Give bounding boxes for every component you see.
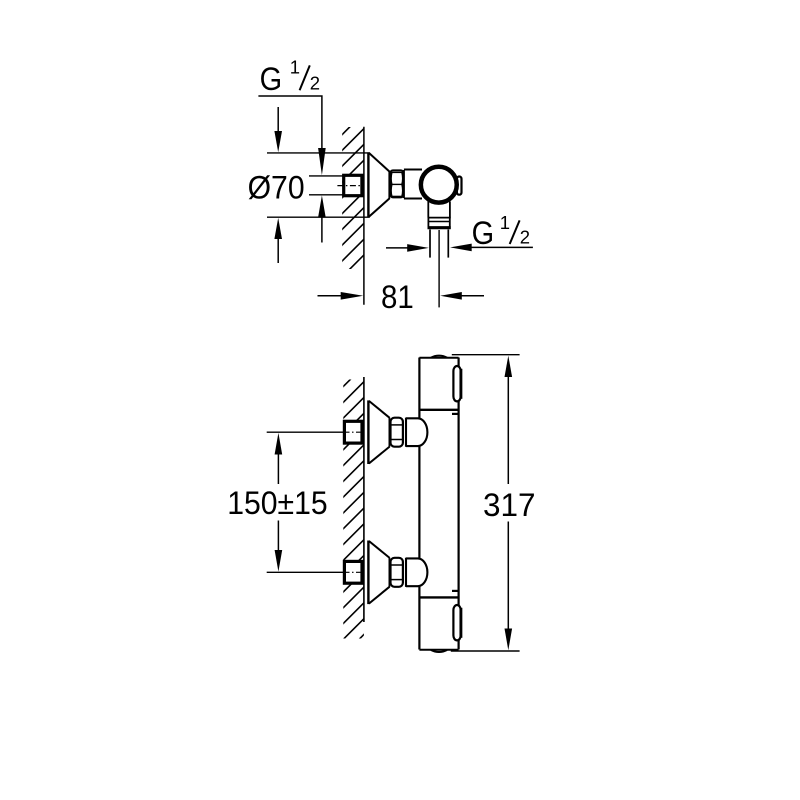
150 dimension extension line (bottom union centerline) (267, 571, 345, 573)
wall hatching (side view) (206, 125, 494, 271)
bottom handle knob (front view) (453, 605, 460, 640)
top cap detail mark (452, 413, 458, 415)
svg-text:150±15: 150±15 (227, 485, 328, 521)
top hex nut (front view) (391, 418, 403, 447)
svg-text:81: 81 (381, 279, 414, 315)
supply pipe extension lines (side view) (309, 176, 343, 195)
hex nut (side view) (390, 170, 403, 197)
317 extension lines (451, 355, 520, 651)
dimension label G 1/2 (outlet, right) (472, 212, 530, 251)
fraction slash (right label) (510, 220, 520, 244)
valve body bar (front view) (419, 358, 458, 650)
bottom cap separation line (419, 596, 458, 598)
svg-text:G: G (260, 61, 283, 97)
concealed union fitting in wall (side view, bold) (344, 175, 362, 195)
top cap separation line (419, 409, 458, 411)
top union centerline (dash-dot) (344, 431, 362, 433)
valve body bottom cap arc (419, 649, 458, 651)
150 dimension extension line (top union centerline) (267, 431, 345, 433)
shower outlet pipe (side view) (428, 202, 450, 218)
hose centerline (side view) (438, 230, 440, 307)
valve inlet cylinder (side view) (404, 170, 422, 199)
handle cap stub right of valve body (side view) (457, 177, 462, 195)
bottom concealed union fitting (bold) (344, 561, 362, 583)
wall surface line (front view) (363, 377, 365, 622)
svg-text:1: 1 (500, 212, 510, 233)
bottom escutcheon cone (front view) (368, 541, 389, 605)
shower hose stub (side view) (430, 230, 448, 258)
317 dimension line with arrows (507, 377, 509, 484)
O70 extension lines (267, 153, 370, 217)
O70 outside arrows (277, 107, 279, 131)
fraction slash (top left label) (300, 65, 310, 90)
150 dimension line with arrows (277, 455, 279, 485)
union centerline (side view, dash-dot) (337, 185, 362, 187)
outlet hose nut (side view) (428, 218, 451, 229)
bottom hex nut (front view) (391, 558, 403, 587)
bottom union dome connector (406, 558, 427, 586)
bottom union centerline (dash-dot) (344, 571, 362, 573)
svg-text:Ø70: Ø70 (248, 169, 305, 205)
wall surface line (side view) (363, 127, 365, 305)
svg-text:G: G (472, 215, 495, 251)
top escutcheon cone (front view) (368, 400, 389, 464)
svg-text:2: 2 (310, 72, 320, 93)
thermostat valve body circle (side view) (421, 167, 457, 203)
escutcheon cone (side view) (368, 152, 389, 217)
valve body top cap arc (419, 357, 458, 359)
svg-text:1: 1 (290, 57, 300, 78)
top concealed union fitting (bold) (344, 421, 362, 443)
dimension label G 1/2 (top left) (260, 57, 320, 98)
svg-text:2: 2 (520, 226, 530, 247)
top handle knob (front view) (453, 366, 460, 401)
G 1/2 leader line and arrows (top left) (258, 96, 322, 148)
top union dome connector (406, 418, 427, 446)
bottom cap detail mark (452, 590, 458, 592)
svg-text:317: 317 (483, 487, 536, 523)
G 1/2 outlet dimension arrows (386, 247, 408, 249)
wall hatching (front view) (88, 374, 625, 642)
